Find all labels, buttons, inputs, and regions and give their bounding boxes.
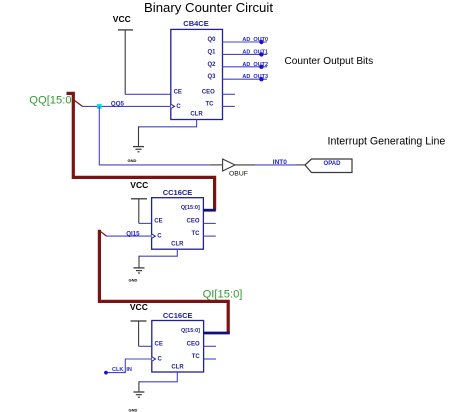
svg-text:QQ[15:0]: QQ[15:0] xyxy=(29,95,74,107)
svg-text:C: C xyxy=(176,104,181,110)
junction dot AD_OUT0 xyxy=(259,40,263,44)
counter U2 CC16CE body xyxy=(152,188,204,249)
pin stub OBUF input xyxy=(211,164,223,166)
wire net CLK_IN to U3 C pin xyxy=(108,359,152,373)
bus QQ[15:0] xyxy=(67,93,215,210)
svg-text:VCC: VCC xyxy=(130,302,148,312)
wire U2 CLR to ground xyxy=(139,249,177,256)
ground (bottom) xyxy=(129,392,145,412)
svg-text:C: C xyxy=(157,234,162,240)
svg-text:CEO: CEO xyxy=(187,341,200,347)
svg-text:VCC: VCC xyxy=(130,180,148,190)
clock triangle U1 C pin xyxy=(171,104,175,108)
svg-text:CC16CE: CC16CE xyxy=(163,188,193,197)
junction marker (cyan) xyxy=(97,104,102,109)
svg-text:GND: GND xyxy=(129,408,138,412)
wire stub U2 TC xyxy=(203,235,215,237)
bus tap hook QI xyxy=(100,231,106,236)
buffer OBUF xyxy=(223,159,248,178)
svg-text:INT0: INT0 xyxy=(273,159,287,166)
svg-text:Q2: Q2 xyxy=(207,62,216,68)
ground (top) xyxy=(128,147,145,163)
wire stub U3 TC xyxy=(204,358,216,360)
svg-text:AD_OUT3: AD_OUT3 xyxy=(242,74,268,80)
wire U3 CLR to ground xyxy=(139,372,177,382)
power symbol VCC (middle, for U2 CE) xyxy=(130,180,148,223)
wire Q1 net AD_OUT1 xyxy=(223,53,268,55)
svg-text:TC: TC xyxy=(192,354,201,360)
ground lead (top) xyxy=(138,126,140,146)
pin stub OBUF output xyxy=(235,164,255,166)
svg-text:Q[15:0]: Q[15:0] xyxy=(181,205,200,211)
wire stub U2 CEO xyxy=(203,222,215,224)
wire U1 CLR to ground xyxy=(139,120,197,127)
wire Q2 net AD_OUT2 xyxy=(223,66,268,68)
svg-text:VCC: VCC xyxy=(113,14,131,24)
svg-text:CLR: CLR xyxy=(171,242,184,248)
wire junction to OBUF input xyxy=(99,106,210,164)
svg-text:CEO: CEO xyxy=(202,89,215,95)
wire VCC to U3 CE pin xyxy=(139,345,152,347)
svg-text:CEO: CEO xyxy=(186,218,199,224)
bus QI[15:0] xyxy=(99,230,228,333)
ground (middle) xyxy=(129,268,145,283)
svg-text:AD_OUT0: AD_OUT0 xyxy=(242,37,268,43)
svg-text:CE: CE xyxy=(174,89,182,95)
junction dot AD_OUT3 xyxy=(259,77,263,81)
svg-text:CE: CE xyxy=(155,341,163,347)
wire stub U1 CEO xyxy=(223,93,235,95)
counter U1 CB4CE body xyxy=(171,19,223,120)
svg-text:QI[15:0]: QI[15:0] xyxy=(203,289,243,301)
svg-text:QQ5: QQ5 xyxy=(111,101,125,108)
svg-text:Counter Output Bits: Counter Output Bits xyxy=(285,56,374,67)
wire net INT0 xyxy=(255,164,296,166)
counter U3 CC16CE body xyxy=(152,311,204,372)
bus pin stub U3 Q[15:0] xyxy=(204,332,230,335)
wire stub U3 CEO xyxy=(204,345,216,347)
svg-text:Q0: Q0 xyxy=(207,37,216,43)
svg-text:CLR: CLR xyxy=(190,111,203,117)
ground lead (bottom) xyxy=(138,381,140,392)
bus tap hook QQ xyxy=(75,101,83,107)
svg-text:OBUF: OBUF xyxy=(229,171,248,178)
svg-text:Q1: Q1 xyxy=(207,49,216,55)
svg-text:CC16CE: CC16CE xyxy=(163,311,193,320)
pad OPAD xyxy=(305,159,352,173)
svg-text:AD_OUT1: AD_OUT1 xyxy=(242,49,268,55)
clock triangle U3 C pin xyxy=(152,357,156,361)
junction dot AD_OUT1 xyxy=(259,52,263,56)
svg-text:Interrupt Generating Line: Interrupt Generating Line xyxy=(328,135,446,147)
svg-text:CB4CE: CB4CE xyxy=(183,19,208,28)
svg-text:TC: TC xyxy=(192,231,201,237)
junction dot AD_OUT2 xyxy=(259,65,263,69)
wire net QQ5 to U1 C pin xyxy=(83,105,171,107)
svg-text:TC: TC xyxy=(206,101,215,107)
wire net QI15 to U2 C pin xyxy=(107,235,152,237)
svg-text:Q3: Q3 xyxy=(207,74,216,80)
svg-text:QI15: QI15 xyxy=(126,230,140,237)
wire VCC to U1 CE pin xyxy=(125,93,171,95)
wire Q0 net AD_OUT0 xyxy=(223,41,268,43)
wire VCC to U2 CE pin xyxy=(139,222,152,224)
input terminal dot CLK_IN xyxy=(104,371,108,375)
svg-text:Binary Counter Circuit: Binary Counter Circuit xyxy=(144,0,273,15)
ground lead (middle) xyxy=(138,256,140,268)
pin stub OPAD input xyxy=(296,164,305,166)
svg-text:GND: GND xyxy=(128,158,137,163)
svg-text:GND: GND xyxy=(129,277,138,282)
clock triangle U2 C pin xyxy=(152,234,156,238)
svg-text:Q[15:0]: Q[15:0] xyxy=(181,328,200,334)
wire stub U1 TC xyxy=(223,105,235,107)
svg-text:CLK_IN: CLK_IN xyxy=(112,367,132,373)
svg-text:OPAD: OPAD xyxy=(324,161,342,167)
bus pin stub U2 Q[15:0] xyxy=(203,209,215,212)
svg-text:CLR: CLR xyxy=(171,364,184,370)
wire Q3 net AD_OUT3 xyxy=(223,78,268,80)
svg-text:CE: CE xyxy=(154,218,162,224)
svg-text:C: C xyxy=(158,357,163,363)
power symbol VCC (top, for U1 CE) xyxy=(113,14,133,95)
power symbol VCC (bottom, for U3 CE) xyxy=(130,302,148,346)
svg-text:AD_OUT2: AD_OUT2 xyxy=(242,62,268,68)
